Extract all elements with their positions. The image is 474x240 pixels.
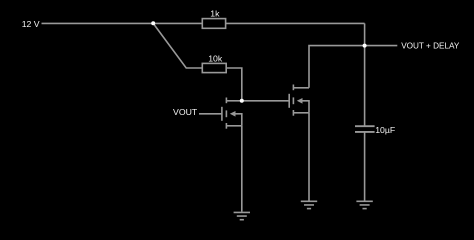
- wire 10k right lead down to gate node: [226, 68, 242, 101]
- wire capacitor bottom to ground: [364, 132, 366, 201]
- wire gate of Q2 from node: [242, 100, 289, 102]
- svg-text:10k: 10k: [208, 53, 223, 63]
- wire Q2 drain up to output node: [309, 46, 365, 88]
- svg-text:VOUT + DELAY: VOUT + DELAY: [401, 42, 460, 51]
- wire diagonal from node to 10k: [153, 23, 202, 68]
- svg-text:1k: 1k: [210, 9, 220, 19]
- node junction dot A (12V rail split): [151, 21, 155, 25]
- ground GND1: [234, 212, 250, 219]
- wire VOUT to gate of Q1: [199, 113, 222, 115]
- node junction dot C (output node): [363, 44, 367, 48]
- node junction dot B (gate node): [240, 99, 244, 103]
- wire Q2 source to ground: [308, 113, 310, 202]
- svg-text:VOUT: VOUT: [173, 107, 198, 117]
- svg-text:10µF: 10µF: [375, 125, 395, 135]
- transistor Q1 NMOS left: [222, 98, 242, 129]
- wire output node down to capacitor: [364, 23, 366, 126]
- ground GND3: [356, 201, 372, 208]
- wire Q1 source to ground: [241, 126, 243, 212]
- transistor Q2 NMOS right: [289, 85, 309, 116]
- resistor 1k: [202, 19, 225, 29]
- capacitor 10uF: [355, 126, 375, 132]
- wire top rail right of R1: [226, 22, 365, 24]
- resistor 10k: [202, 63, 226, 72]
- wire output node to VOUT+DELAY terminal: [365, 45, 398, 47]
- svg-text:12 V: 12 V: [22, 19, 40, 29]
- wire 12V supply top rail: [42, 22, 203, 24]
- ground GND2: [301, 201, 317, 208]
